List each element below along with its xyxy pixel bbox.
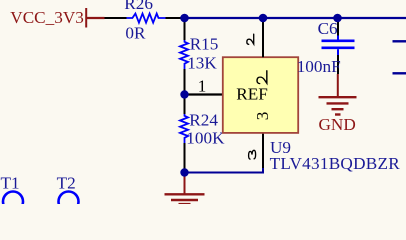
svg-text:R15: R15: [190, 34, 219, 53]
svg-text:REF: REF: [236, 84, 268, 103]
svg-text:1: 1: [198, 76, 207, 95]
svg-text:100nF: 100nF: [297, 57, 341, 76]
svg-text:3: 3: [253, 112, 272, 121]
svg-text:T2: T2: [57, 174, 76, 193]
svg-text:R24: R24: [189, 110, 218, 129]
svg-text:VCC_3V3: VCC_3V3: [10, 8, 84, 27]
svg-text:13K: 13K: [187, 53, 217, 72]
svg-text:TLV431BQDBZR: TLV431BQDBZR: [270, 154, 401, 173]
svg-text:T1: T1: [1, 174, 20, 193]
svg-text:0R: 0R: [125, 23, 146, 42]
svg-text:100K: 100K: [186, 128, 225, 147]
svg-text:GND: GND: [319, 115, 356, 134]
svg-text:R26: R26: [124, 0, 153, 13]
svg-text:C6: C6: [318, 19, 338, 38]
